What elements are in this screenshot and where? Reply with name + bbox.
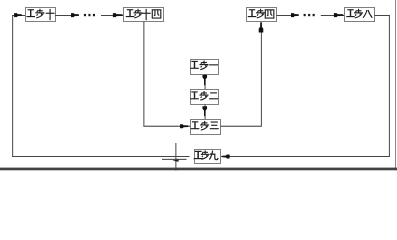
frame bottom border [0,168,397,171]
wire step2 to step3 [204,105,207,120]
arrow into step14 [113,13,123,17]
wire left loop top horizontal [12,14,25,17]
arrow up into step4 [259,22,264,32]
ellipsis dots right row [304,14,306,16]
step box 工步四 [247,8,277,22]
wire step1 to step2 [204,74,207,90]
wire crossing vertical [174,143,177,171]
wire bottom return to step9 [221,155,390,158]
wire into step14 [101,14,124,17]
wire into step3 horizontal [143,126,190,127]
wire lower short horizontal [162,159,187,160]
step box 工步八 [345,8,375,22]
wire step3 output right [221,126,262,127]
arrow into step9 from right [222,155,229,159]
wire into step8 [321,14,345,17]
wire left loop vertical [11,15,14,157]
arrow into step3 [180,124,188,128]
arrowhead mid left row [71,13,79,17]
step box 工步九 [194,150,221,164]
wire step9 return left upper [12,155,189,158]
step box 工步十四 [124,8,164,22]
wire right loop down [388,15,391,157]
wire step8 output right [375,14,390,17]
arrow blob at crossing [172,159,178,161]
step box 工步三 [191,120,221,135]
step box 工步一 [190,60,218,75]
wire step14 down [142,22,145,127]
arrowhead mid right row [291,13,299,17]
frame right border [395,0,396,170]
arrow step1 to step2 [202,75,207,85]
step box 工步十 [26,8,56,22]
step box 工步二 [190,90,218,105]
wire step4 output [277,14,292,17]
arrow into step8 [334,13,343,17]
wire step10 output [55,14,72,17]
ellipsis dots left row [84,14,86,16]
arrow step2 to step3 [202,106,207,116]
arrow into step10 [14,13,22,17]
wire up to step4 [260,23,263,127]
